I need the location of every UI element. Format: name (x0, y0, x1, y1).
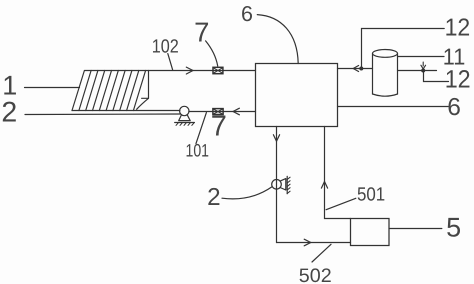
pump 101 (circle with mount and ground) (175, 106, 195, 125)
unit 6 main box (256, 64, 338, 127)
svg-text:6: 6 (241, 2, 253, 26)
wire: line from tank right side (398, 70, 437, 72)
arrow on pipe (flow left into box) (353, 66, 358, 72)
wire: 12 (top) tap line (362, 29, 445, 69)
wire: top pipe 102 from coil to unit 6 (149, 70, 256, 72)
unit 501 small box (351, 219, 390, 246)
arrow on line 2 (flow left) (233, 108, 239, 115)
leader from label 502 to bottom run (312, 244, 331, 262)
svg-text:6: 6 (447, 94, 461, 121)
junction dot at 12 (lower) tap (421, 69, 425, 73)
svg-text:101: 101 (186, 141, 210, 161)
coil hatch lines (79, 71, 146, 111)
svg-text:12: 12 (445, 15, 471, 42)
leader from label 7 (top) to valve (206, 41, 218, 66)
leader from label 501 to right drop (326, 198, 356, 209)
coil fold corner (137, 98, 149, 109)
coil E1 (hatched evaporator body) (72, 71, 149, 111)
valve 7 (top) (213, 67, 223, 73)
wire: line 2 from label to pump 101 (25, 113, 180, 116)
svg-text:501: 501 (357, 185, 385, 206)
pump 2 (circle with side mount) (272, 176, 290, 193)
arrow up on right drop (321, 182, 327, 189)
svg-text:7: 7 (194, 17, 209, 48)
wire: line 2 pump to unit 6 (189, 111, 256, 113)
svg-text:12: 12 (445, 65, 471, 93)
wire: line to label 11 (398, 56, 445, 58)
svg-text:7: 7 (211, 111, 227, 143)
svg-text:502: 502 (299, 265, 332, 284)
wire: L-line to label 12 (lower) (424, 71, 449, 82)
wire: left drop from box bottom (276, 127, 278, 243)
small down arrow above junction (421, 62, 426, 69)
wire: pipe from box to tank 11 (338, 68, 373, 70)
leader from label 101 to line 2 (196, 113, 206, 144)
wire: right drop from box bottom to unit 501 (325, 127, 351, 219)
tank 11 (cylinder) (373, 50, 398, 97)
wire: bottom run to unit 501 box (277, 242, 351, 244)
valve 7 (lower) (213, 109, 223, 115)
wire: output line to label 5 (389, 228, 442, 230)
wire: coil bottom edge extended to pump 101 (72, 110, 180, 112)
node 1 leader line (25, 87, 80, 89)
arrow on pipe 102 (flow right) (186, 67, 193, 74)
svg-text:5: 5 (446, 213, 461, 243)
leader from label 102 to pipe (168, 54, 173, 70)
leader curve from label 6 (top) to box top (257, 15, 298, 64)
leader curve from label 2 (lower) to pump 2 (222, 187, 272, 199)
arrow right on bottom run (304, 239, 311, 246)
svg-text:102: 102 (152, 37, 179, 58)
svg-text:2: 2 (207, 184, 221, 211)
svg-text:2: 2 (1, 96, 17, 128)
wire: line 6 from box right to label 6 (338, 106, 449, 108)
arrow down on left drop (273, 135, 279, 142)
junction dot at 12 tap (359, 67, 363, 71)
